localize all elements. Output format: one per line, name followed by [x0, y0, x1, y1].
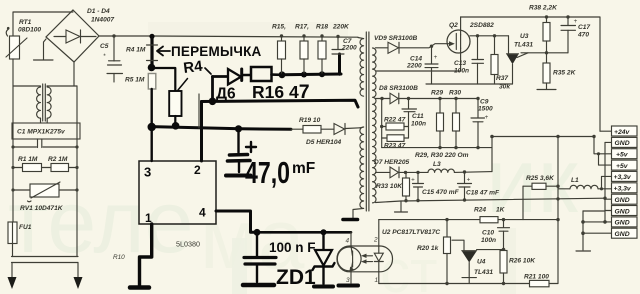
resistor R22	[380, 117, 409, 131]
resistor R24	[474, 207, 558, 223]
thermistor RT1	[6, 19, 41, 59]
wire IC pin1 to ground (hand)	[140, 224, 152, 286]
resistor R5	[148, 74, 156, 90]
svg-text:+: +	[467, 177, 471, 184]
wire feedback right rail	[557, 137, 559, 284]
shunt U3 TL431	[507, 33, 534, 84]
wire IC pin3 up to negative bus	[150, 127, 152, 161]
jumper (hand) replacing R4	[147, 34, 158, 72]
wire Q2 emitter bus	[470, 35, 509, 37]
wire aux winding bottom to ground	[353, 208, 364, 218]
ground secondary	[395, 201, 408, 212]
svg-text:+: +	[411, 177, 415, 184]
svg-text:GND: GND	[615, 208, 630, 215]
wire DC+ rail from bridge	[99, 35, 152, 37]
svg-text:R20 1k: R20 1k	[417, 245, 439, 252]
svg-text:R37: R37	[496, 75, 508, 82]
svg-text:+24v: +24v	[614, 129, 631, 136]
transistor Q2 2SD882	[447, 17, 494, 71]
svg-text:100n: 100n	[454, 68, 469, 75]
svg-text:U2 PC817LTV817C: U2 PC817LTV817C	[382, 229, 440, 236]
capacitor 100nF (hand)	[243, 232, 276, 285]
resistor R37	[491, 34, 510, 90]
svg-text:R1 1M: R1 1M	[18, 156, 38, 163]
svg-text:C17: C17	[578, 24, 590, 31]
svg-text:C1 MPX1K275v: C1 MPX1K275v	[17, 129, 65, 136]
svg-text:Д6: Д6	[216, 86, 236, 103]
svg-text:08D100: 08D100	[18, 27, 41, 34]
transformer aux winding	[360, 127, 364, 208]
resistor R17	[295, 24, 309, 74]
svg-text:R30: R30	[449, 90, 461, 97]
svg-text:R29: R29	[431, 90, 443, 97]
resistor R1	[13, 156, 42, 172]
svg-text:470: 470	[577, 32, 589, 39]
svg-text:C11: C11	[412, 113, 424, 120]
wire GND lower links	[581, 211, 611, 250]
svg-text:4: 4	[199, 206, 206, 220]
wire R22/R23 ladder stem	[381, 99, 383, 148]
svg-text:+: +	[485, 114, 489, 121]
svg-text:C5: C5	[100, 43, 109, 50]
svg-text:1K: 1K	[496, 207, 506, 214]
resistor R30	[449, 90, 461, 150]
resistor R25	[523, 175, 560, 189]
svg-text:R24: R24	[474, 207, 486, 214]
svg-text:C9: C9	[480, 99, 489, 106]
svg-text:+3,3v: +3,3v	[614, 186, 632, 193]
svg-text:R33 10K: R33 10K	[376, 183, 403, 190]
wire main DC bus to clamp	[152, 36, 358, 37]
resistor R2	[11, 156, 78, 172]
wire +24v drop to terminal	[600, 130, 611, 132]
capacitor C14	[406, 47, 438, 84]
svg-text:C13: C13	[454, 60, 466, 67]
wire U3 cathode node row	[521, 52, 568, 54]
wire opto pin1 to bottom rail	[378, 272, 380, 284]
svg-text:47,0: 47,0	[245, 155, 290, 190]
ground below R35	[537, 89, 556, 91]
wire feedback top rail	[379, 219, 480, 221]
svg-text:4: 4	[346, 238, 350, 245]
svg-text:D1 - D4: D1 - D4	[87, 8, 110, 15]
svg-text:D7 HER205: D7 HER205	[374, 159, 410, 166]
resistor R21	[524, 274, 558, 287]
svg-text:5L0380: 5L0380	[176, 240, 200, 249]
optocoupler U2 PC817	[337, 237, 393, 285]
svg-text:R19 10: R19 10	[299, 117, 321, 124]
wire drain bus (hand) to transformer primary bottom	[202, 100, 359, 107]
AC input arrow left	[8, 263, 17, 290]
wire clamp bottom bus (hand thick)	[279, 54, 341, 78]
capacitor C18	[458, 170, 500, 201]
resistor R35	[543, 53, 577, 89]
svg-text:+5v: +5v	[616, 163, 629, 170]
svg-text:1N4007: 1N4007	[91, 17, 114, 24]
terminal block output connector	[612, 126, 638, 238]
wire left rail down	[12, 59, 14, 222]
svg-text:R17,: R17,	[295, 24, 309, 31]
resistor R15	[272, 24, 286, 74]
svg-text:3: 3	[346, 277, 350, 284]
svg-text:+3,3v: +3,3v	[614, 174, 632, 181]
wire secondary ground bus	[376, 198, 606, 202]
transformer secondary winding	[373, 48, 377, 203]
wire opto pin3 to ground	[350, 272, 352, 284]
wire GND rail	[603, 142, 611, 222]
diode D7	[374, 159, 410, 178]
ground output common	[576, 250, 591, 252]
svg-text:2: 2	[194, 163, 201, 177]
shunt U4 TL431	[452, 240, 493, 283]
svg-text:1: 1	[375, 277, 379, 284]
svg-text:+: +	[434, 54, 438, 61]
node main negative bus left end	[148, 123, 156, 131]
wire R25 riser to feedback	[522, 186, 524, 219]
svg-text:R29, R30 220 Om: R29, R30 220 Om	[415, 152, 469, 159]
svg-text:100n: 100n	[481, 237, 496, 244]
capacitor C17	[561, 15, 590, 53]
wire branch to R4 box	[153, 68, 175, 91]
label R4 (hand) with pointer	[178, 58, 211, 90]
wire choke top row	[13, 85, 40, 87]
svg-text:R21 100: R21 100	[524, 274, 549, 281]
svg-text:D8 SR3100B: D8 SR3100B	[379, 85, 418, 92]
svg-text:R4 1M: R4 1M	[126, 47, 146, 54]
label 470 mF (hand)	[245, 155, 315, 190]
capacitor C7	[332, 35, 357, 54]
wire feedback bottom rail	[379, 283, 530, 285]
svg-text:+5v: +5v	[616, 152, 629, 159]
wire VD9 to Q2 gate	[399, 44, 447, 48]
svg-text:L3: L3	[433, 161, 441, 168]
svg-text:C10: C10	[482, 230, 494, 237]
svg-text:R2 1M: R2 1M	[48, 156, 68, 163]
svg-text:3: 3	[144, 165, 151, 180]
wire +5v drop	[592, 135, 611, 154]
svg-text:100 n F: 100 n F	[269, 240, 316, 255]
svg-text:D5 HER104: D5 HER104	[306, 139, 342, 146]
svg-text:L1: L1	[571, 177, 579, 184]
svg-text:2: 2	[373, 237, 378, 244]
svg-text:R23 47: R23 47	[384, 143, 406, 150]
wire right AC rail	[76, 86, 78, 257]
capacitor C11	[402, 97, 426, 138]
diode VD9	[374, 35, 417, 53]
label ПЕРЕМЫЧКА (hand) with arrow	[157, 44, 262, 59]
svg-text:Q2: Q2	[449, 22, 458, 29]
resistor R4 (hand-drawn box)	[169, 91, 181, 130]
svg-text:GND: GND	[615, 220, 630, 227]
capacitor C1 box	[12, 123, 80, 139]
capacitor C10	[481, 218, 510, 252]
svg-text:R38 2,2K: R38 2,2K	[529, 5, 558, 12]
svg-text:C14: C14	[410, 56, 422, 63]
capacitor 470mF (hand) on drain bus	[226, 129, 256, 176]
svg-text:C18 47 mF: C18 47 mF	[466, 190, 500, 197]
zener ZD1 (hand)	[313, 232, 335, 286]
capacitor C5	[100, 36, 123, 82]
wire opto pin2 to feedback top	[378, 220, 380, 247]
resistor R16 (hand)	[251, 67, 281, 81]
wire AC bottom bus	[12, 257, 79, 263]
svg-text:TL431: TL431	[514, 42, 533, 49]
resistor R26	[500, 251, 536, 286]
svg-text:R25 3,6K: R25 3,6K	[526, 175, 555, 182]
wire Q2 source row to winding	[376, 70, 461, 72]
resistor R20	[417, 218, 451, 285]
svg-text:TL431: TL431	[474, 269, 493, 276]
diode D5	[306, 124, 360, 147]
wire U4 ref	[477, 249, 504, 251]
wire bridge bottom to choke row	[73, 62, 75, 86]
svg-text:R5 1M: R5 1M	[125, 77, 145, 84]
wire +5v jumper	[597, 152, 611, 165]
diode D6 (hand) snubber	[213, 69, 252, 101]
svg-text:VD9 SR3100B: VD9 SR3100B	[374, 35, 417, 42]
bridge rectifier D1-D4	[46, 8, 114, 62]
resistor R19	[291, 117, 334, 133]
resistor R23	[382, 135, 409, 150]
AC input arrow right	[74, 263, 83, 290]
svg-text:R18: R18	[316, 24, 328, 31]
capacitor C1 plates	[11, 139, 78, 149]
ground IC pin1	[130, 285, 149, 290]
svg-text:2200: 2200	[341, 45, 357, 52]
diode D8	[376, 85, 419, 104]
varistor RV1	[11, 182, 78, 212]
ground opto emitter	[339, 284, 359, 288]
svg-text:U3: U3	[520, 33, 529, 40]
wire D8 output rail	[399, 98, 478, 100]
svg-text:U4: U4	[477, 259, 486, 266]
wire AC line left rail	[13, 12, 73, 36]
wire IC pin2 up to drain node (hand thick)	[200, 102, 203, 162]
capacitor C15	[411, 171, 460, 203]
transformer T1 core	[366, 32, 369, 211]
wire IC pin4 (hand)	[216, 211, 257, 232]
svg-text:C15 470 mF: C15 470 mF	[422, 189, 460, 196]
svg-text:RV1 10D471K: RV1 10D471K	[20, 205, 64, 212]
svg-text:+: +	[574, 18, 578, 25]
transformer primary winding	[360, 39, 364, 97]
svg-text:R26 10K: R26 10K	[509, 258, 536, 265]
wire 12V bottoms bus	[382, 147, 492, 149]
resistor R33	[376, 172, 410, 202]
inductor L1	[558, 177, 611, 189]
wire 12V feed riser	[490, 135, 594, 172]
svg-text:mF: mF	[292, 160, 315, 177]
wire R5 bottom to node	[150, 89, 152, 127]
svg-text:GND: GND	[615, 197, 630, 204]
svg-text:GND: GND	[615, 231, 630, 238]
svg-text:GND: GND	[615, 140, 630, 147]
svg-text:ZD1: ZD1	[276, 266, 316, 289]
wire top 24V rail	[461, 17, 600, 131]
svg-text:ПЕРЕМЫЧКА: ПЕРЕМЫЧКА	[171, 44, 262, 59]
wire Vcc bus to opto (hand)	[257, 231, 351, 234]
svg-text:RT1: RT1	[19, 19, 32, 26]
svg-text:R16 47: R16 47	[252, 81, 310, 103]
resistor R18	[316, 24, 350, 74]
fuse FU1	[8, 222, 32, 257]
capacitor C13	[454, 34, 484, 84]
svg-text:220K: 220K	[332, 24, 350, 31]
svg-text:R22 47: R22 47	[384, 117, 406, 124]
svg-text:2SD882: 2SD882	[469, 22, 494, 29]
wire secondary common bus	[426, 83, 513, 85]
IC U1 5L0380	[139, 161, 216, 249]
svg-text:FU1: FU1	[19, 224, 32, 231]
capacitor C9	[471, 97, 493, 150]
resistor R29	[431, 90, 444, 150]
svg-text:R10: R10	[113, 254, 125, 261]
chassis bar below bridge left corner	[34, 39, 54, 60]
svg-text:R35 2K: R35 2K	[553, 70, 577, 77]
wire negative bus (hand, thick)	[152, 127, 291, 130]
svg-text:1500: 1500	[478, 106, 493, 113]
ground aux winding	[343, 218, 358, 222]
svg-text:R4: R4	[182, 58, 204, 77]
wire +3,3v jumper	[600, 176, 611, 190]
inductor L3	[406, 161, 493, 172]
svg-text:R15,: R15,	[272, 24, 286, 31]
wire opto pin4	[350, 232, 352, 246]
svg-text:100n: 100n	[411, 121, 426, 128]
svg-text:2200: 2200	[406, 63, 422, 70]
common-mode choke windings	[37, 84, 52, 123]
resistor R38	[529, 5, 558, 55]
